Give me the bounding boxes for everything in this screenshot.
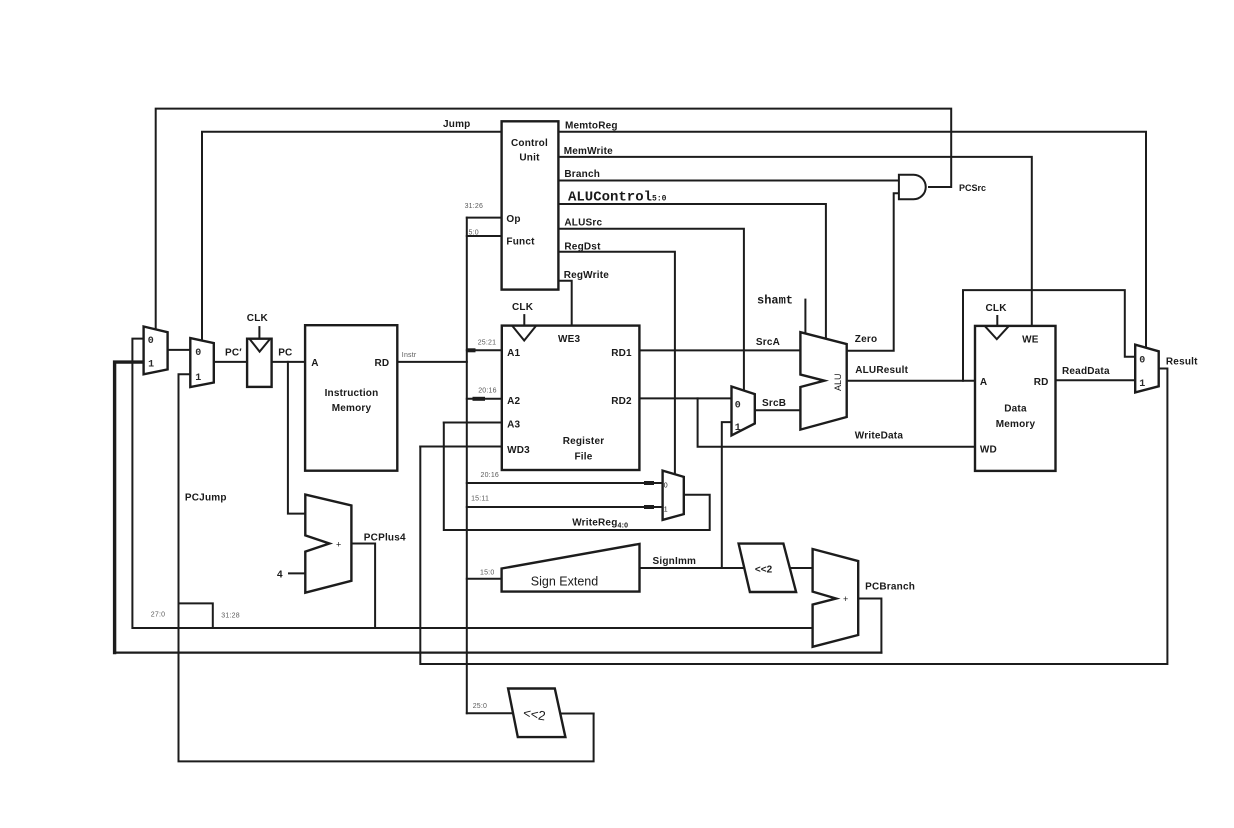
data memory clock notch: [985, 326, 1009, 339]
shifter <<2 (jump, bottom): [508, 689, 565, 738]
wire jump shifter input 25:0: [467, 712, 514, 714]
svg-text:Funct: Funct: [506, 237, 535, 248]
svg-text:WE: WE: [1022, 335, 1039, 346]
svg-text:shamt: shamt: [757, 294, 793, 308]
svg-text:Op: Op: [506, 214, 520, 225]
svg-text:25:21: 25:21: [478, 340, 497, 347]
svg-text:15:11: 15:11: [471, 496, 489, 503]
svg-text:27:0: 27:0: [151, 612, 165, 619]
svg-text:15:0: 15:0: [480, 570, 494, 577]
svg-text:WD3: WD3: [507, 445, 530, 456]
svg-text:SrcA: SrcA: [756, 337, 780, 348]
PC CLK stub: [258, 326, 260, 339]
register PC: [247, 339, 272, 387]
svg-text:0: 0: [1139, 356, 1145, 367]
svg-text:Memory: Memory: [996, 419, 1036, 430]
svg-text:PC: PC: [278, 348, 292, 359]
svg-text:31:28: 31:28: [221, 613, 240, 620]
wire mux1 output to mux2 input 0: [168, 349, 191, 351]
wire Zero: ALU to AND gate input: [847, 193, 899, 351]
svg-text:Instruction: Instruction: [325, 388, 379, 399]
mux M5 (Result mux 0/1): [1135, 345, 1159, 393]
svg-text:Data: Data: [1004, 404, 1027, 415]
wire shamt into ALU top: [804, 300, 806, 334]
wire RegDst: control to WriteReg mux select: [558, 252, 675, 474]
wire PC: register to instruction memory A: [272, 361, 306, 363]
svg-text:Result: Result: [1166, 357, 1198, 368]
wire ALUSrc: control to SrcB mux select: [558, 229, 744, 391]
svg-text:PCSrc: PCSrc: [959, 183, 986, 193]
data memory box: [975, 326, 1056, 471]
sign extend block: [502, 544, 640, 592]
svg-text:Zero: Zero: [855, 334, 877, 345]
svg-text:0: 0: [735, 401, 741, 412]
register file CLK stub: [523, 314, 525, 326]
svg-text:31:26: 31:26: [465, 203, 484, 210]
svg-text:RD2: RD2: [611, 396, 632, 407]
svg-text:CLK: CLK: [512, 302, 534, 313]
wire PCPlus4 adder output down to bottom line: [352, 544, 375, 629]
bus slash WriteReg in1: [646, 505, 652, 509]
wire PC-prime: mux2 output to PC register: [214, 361, 247, 363]
wire PCSrc select: AND output up and across top to mux1 select: [156, 109, 952, 329]
svg-text:1: 1: [195, 373, 201, 384]
wire constant 4 stub: [289, 572, 305, 574]
wire A2 stub 20:16: [467, 398, 502, 400]
wire ALUResult tap over data memory to result mux input 0: [963, 290, 1135, 381]
wire SignImm tap up to SrcB mux input 1: [722, 422, 732, 568]
wire Result: mux output down, across bottom, up to WD3: [420, 369, 1167, 665]
wire Op stub 31:26: [467, 217, 502, 219]
svg-text:20:16: 20:16: [478, 388, 497, 395]
wire MemWrite: control to data memory WE: [558, 157, 1031, 326]
wire MemtoReg: control to result mux select: [558, 132, 1146, 348]
svg-text:0: 0: [148, 336, 154, 347]
wire Funct stub 5:0: [467, 235, 502, 237]
svg-text:A: A: [311, 358, 318, 369]
svg-text:1: 1: [735, 423, 741, 434]
svg-text:PCPlus4: PCPlus4: [364, 533, 406, 544]
wire RD1 to SrcA: [639, 349, 800, 351]
svg-text:A3: A3: [507, 420, 520, 431]
wire ALUResult: ALU to data memory A: [847, 380, 975, 382]
wire jump shifter output: [561, 713, 594, 715]
bus slash WriteReg in0: [646, 481, 652, 485]
svg-text:25:0: 25:0: [473, 703, 487, 710]
svg-text:MemWrite: MemWrite: [564, 146, 613, 157]
svg-text:ALUResult: ALUResult: [855, 365, 908, 376]
wire PCBranch feedback: thick left vertical up to mux1 input 1: [115, 362, 144, 652]
svg-text:RegWrite: RegWrite: [564, 270, 610, 281]
svg-text:Control: Control: [511, 138, 548, 149]
control unit box: [502, 121, 559, 289]
svg-text:1: 1: [1139, 379, 1145, 390]
svg-text:SrcB: SrcB: [762, 398, 786, 409]
svg-text:PCBranch: PCBranch: [865, 582, 915, 593]
svg-text:+: +: [336, 540, 341, 550]
svg-text:0: 0: [195, 348, 201, 359]
svg-text:A1: A1: [507, 348, 520, 359]
svg-text:MemtoReg: MemtoReg: [565, 121, 618, 132]
svg-text:Sign Extend: Sign Extend: [531, 575, 598, 589]
wire shifter <<2 to branch adder: [791, 567, 813, 569]
svg-text:CLK: CLK: [247, 313, 269, 324]
wire ReadData: data memory RD to result mux input 1: [1056, 379, 1136, 381]
wire RD2 to SrcB mux input 0: [639, 397, 731, 399]
svg-text:<<2: <<2: [755, 565, 773, 576]
svg-text:Unit: Unit: [519, 153, 540, 164]
op-amp style ALU: [800, 332, 846, 429]
bus slash A2: [475, 397, 484, 401]
svg-text:ReadData: ReadData: [1062, 366, 1110, 377]
svg-text:WE3: WE3: [558, 334, 581, 345]
wire WD3 from Result: [420, 446, 502, 448]
adder PCBranch (+): [813, 549, 859, 647]
mux M1 (PCSrc mux 0/1): [144, 327, 168, 375]
wire Instr bus vertical: [466, 218, 468, 714]
svg-text:+: +: [843, 594, 848, 604]
svg-text:1: 1: [148, 360, 154, 371]
shifter <<2 (SignImm): [739, 544, 797, 592]
svg-text:Memory: Memory: [332, 403, 372, 414]
svg-text:5:0: 5:0: [469, 230, 479, 237]
wire PCBranch feedback: bottom line: [115, 651, 882, 653]
wire PCJump concat step 31:28 from PCPlus4 line: [179, 603, 213, 628]
svg-text:ALUSrc: ALUSrc: [564, 218, 602, 229]
svg-text:PCJump: PCJump: [185, 493, 227, 504]
svg-text:Branch: Branch: [564, 169, 600, 180]
mux M2 (Jump mux 0/1): [190, 338, 214, 387]
svg-text:Instr: Instr: [402, 352, 417, 359]
wire ALUControl: control to ALU top: [558, 204, 826, 339]
adder PCPlus4 (+): [305, 495, 351, 593]
svg-text:PC′: PC′: [225, 348, 242, 359]
wire SrcB mux output to ALU: [755, 409, 801, 411]
svg-text:WD: WD: [980, 445, 997, 456]
wire Jump: control unit left to mux2 select: [202, 132, 502, 342]
wire SignImm: sign extend to shifter: [640, 567, 745, 569]
wire PCJump vertical into mux2 input 1: [179, 374, 594, 761]
register file clock notch: [512, 326, 536, 341]
svg-text:RD: RD: [1034, 377, 1049, 388]
register file box: [502, 326, 640, 470]
svg-text:RD: RD: [375, 358, 390, 369]
wire PCBranch adder output down to feedback line: [858, 599, 881, 653]
wire WriteReg output loop to A3: [444, 423, 710, 531]
wire WriteReg mux input0 20:16: [467, 482, 663, 484]
PC clock notch: [249, 339, 270, 352]
data memory CLK stub: [996, 315, 998, 326]
wire PC tap down to PCPlus4 adder input: [288, 362, 305, 514]
wire Instr: instruction memory RD to bus: [397, 361, 467, 363]
svg-text:CLK: CLK: [986, 303, 1008, 314]
wire Branch: control to AND gate input: [558, 180, 899, 182]
svg-text:Register: Register: [563, 436, 605, 447]
wire WriteData: RD2 tap down to data memory WD: [698, 398, 975, 446]
svg-text:20:16: 20:16: [481, 472, 500, 479]
wire A1 stub 25:21: [467, 349, 502, 351]
svg-text:Jump: Jump: [443, 119, 470, 130]
svg-text:ALUControl5:0: ALUControl5:0: [568, 190, 667, 206]
wire A3 from WriteReg: [444, 422, 502, 424]
svg-text:0: 0: [664, 483, 668, 490]
mux M4 (SrcB mux 0/1): [732, 387, 755, 436]
svg-text:File: File: [574, 452, 592, 463]
svg-text:RegDst: RegDst: [564, 242, 601, 253]
svg-text:4: 4: [277, 570, 283, 581]
wire WriteReg mux input1 15:11: [467, 506, 663, 508]
wire RegWrite: control to register file WE3: [558, 281, 571, 326]
svg-text:ALU: ALU: [833, 373, 843, 391]
svg-text:RD1: RD1: [611, 348, 632, 359]
svg-text:A: A: [980, 377, 987, 388]
wire PCPlus4 feedback: bottom line up to mux1 input 0: [132, 339, 812, 628]
bus slash A1: [468, 348, 473, 352]
instruction memory box: [305, 325, 397, 471]
svg-text:SignImm: SignImm: [653, 556, 697, 567]
svg-text:1: 1: [664, 507, 668, 514]
svg-text:WriteData: WriteData: [855, 431, 904, 442]
wire SignExtend input 15:0: [467, 578, 502, 580]
AND gate (PCSrc): [899, 175, 926, 200]
mux M3 (WriteReg mux): [663, 471, 684, 520]
svg-text:A2: A2: [507, 396, 520, 407]
